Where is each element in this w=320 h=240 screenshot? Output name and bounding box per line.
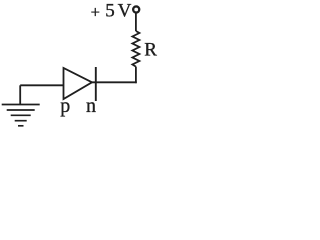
svg-text:p: p [60,95,70,117]
wire ground stub [19,85,21,104]
node +5V terminal circle [133,6,139,12]
wire terminal to resistor [135,13,137,31]
wire resistor to corner [135,67,137,84]
wire corner to diode cathode [92,81,137,83]
ground [2,105,40,126]
svg-text:+5V: +5V [91,0,132,21]
svg-text:R: R [144,39,157,60]
svg-text:n: n [86,95,96,117]
diode D1 triangle [64,68,93,99]
resistor R [132,31,139,67]
wire anode to ground [20,84,63,86]
diode cathode bar [95,67,97,101]
